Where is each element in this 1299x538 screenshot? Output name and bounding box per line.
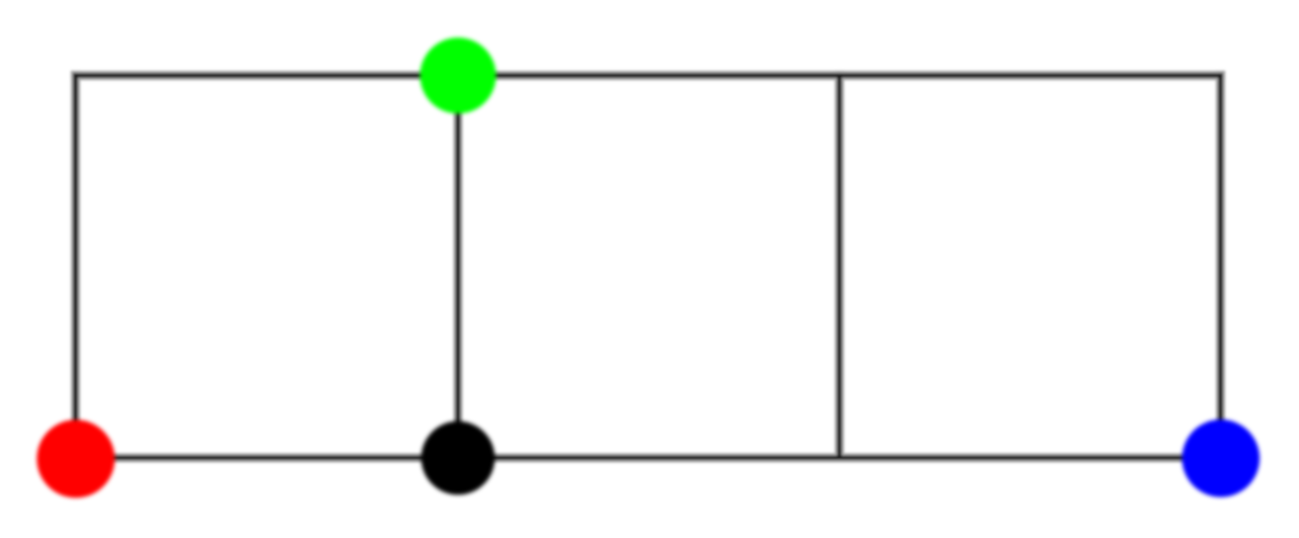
node black <box>421 421 495 495</box>
wire center-right vertical halo <box>835 76 844 458</box>
node blue <box>1182 420 1260 498</box>
wire top edge <box>76 73 1221 78</box>
wire center-left vertical <box>456 76 461 458</box>
wire top edge halo <box>76 71 1221 80</box>
wire left edge <box>73 76 78 459</box>
wire right edge halo <box>1216 76 1225 459</box>
wire right edge <box>1218 76 1223 459</box>
wire bottom edge <box>76 456 1221 461</box>
wire center-left vertical halo <box>453 76 462 458</box>
wire center-right vertical <box>837 76 842 458</box>
node red <box>37 420 115 498</box>
wire bottom edge halo <box>76 453 1221 462</box>
wire left edge halo <box>71 76 80 459</box>
node green <box>420 38 496 114</box>
